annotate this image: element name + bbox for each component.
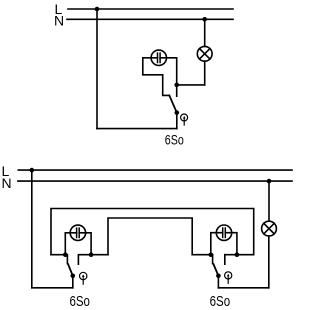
wire N line (top diagram) — [67, 18, 233, 20]
wire neon1 left lead — [65, 233, 76, 255]
junction dot neon1 left lead — [63, 252, 68, 257]
junction dot neon1 right lead — [89, 252, 94, 257]
junction dot right contact (top) — [174, 83, 179, 88]
switch 1 blade — [68, 264, 73, 276]
wire left contact tick switch 2 — [212, 255, 214, 264]
wire lamp top lead to N (bottom) — [268, 181, 270, 221]
wire neon2 left lead — [211, 233, 223, 255]
junction dot on L line (top feed) — [95, 7, 100, 12]
wire bottom run to lamp (bottom) — [218, 287, 268, 289]
wire lamp bottom lead (bottom) — [268, 236, 270, 288]
wire feed from L down (top) — [96, 9, 98, 129]
junction dot switch 2 pivot — [216, 274, 221, 279]
indicator glow arrow of switch 2 (bottom) — [225, 272, 232, 284]
wire upper traveller — [51, 209, 254, 255]
svg-text:N: N — [54, 12, 64, 28]
svg-text:6So: 6So — [165, 131, 184, 147]
neon glow lamp in switch (top) — [151, 50, 166, 65]
junction dot on N line (top) — [202, 17, 207, 22]
wire feed from L down left side (bottom) — [31, 170, 33, 288]
wire contact to lamp (top) — [177, 84, 205, 86]
wire left contact to neon lamp (top) — [143, 58, 170, 96]
svg-text:6So: 6So — [69, 293, 90, 310]
indicator glow arrow of switch (top) — [181, 114, 188, 125]
lamp (bottom) — [262, 221, 277, 236]
indicator glow arrow of switch 1 (bottom) — [80, 272, 87, 284]
switch blade (top, 6So) — [169, 95, 177, 112]
wire right contact from neon lamp down (top) — [160, 58, 177, 96]
wire lamp bottom lead (top) — [204, 61, 206, 85]
wire bottom run to switch 1 (bottom) — [32, 287, 73, 289]
svg-text:6So: 6So — [210, 293, 231, 310]
junction dot on L line (bottom feed) — [30, 168, 35, 173]
wire L line (bottom diagram) — [18, 169, 292, 171]
switch 2 blade — [214, 264, 219, 276]
wire up to switch 1 pivot — [72, 276, 74, 288]
wire L line (top diagram) — [68, 8, 233, 10]
wire left contact tick switch 1 — [51, 255, 67, 264]
wire N line (bottom diagram) — [18, 180, 292, 182]
svg-text:N: N — [2, 175, 12, 191]
wire switch 2 pivot down — [217, 276, 219, 288]
junction dot switch pivot (top) — [175, 110, 180, 115]
wire right contact tick switch 1 — [78, 255, 108, 265]
junction dot on N line (bottom) — [267, 179, 272, 184]
wire up to switch pivot (top) — [176, 113, 178, 129]
lamp (top) — [197, 46, 212, 61]
wire right contact tick switch 2 — [224, 255, 226, 265]
junction dot neon2 left lead — [209, 252, 214, 257]
neon glow lamp in switch 2 — [216, 225, 231, 240]
wire lower traveller — [108, 218, 213, 255]
neon glow lamp in switch 1 — [70, 225, 85, 240]
wire neon2 right lead — [225, 233, 237, 255]
junction dot switch 1 pivot — [71, 274, 76, 279]
junction dot neon2 right lead — [235, 252, 240, 257]
wire lamp top lead to N (top) — [204, 19, 206, 46]
wire neon1 right lead — [79, 233, 91, 255]
wire bottom run (top) — [97, 128, 177, 130]
